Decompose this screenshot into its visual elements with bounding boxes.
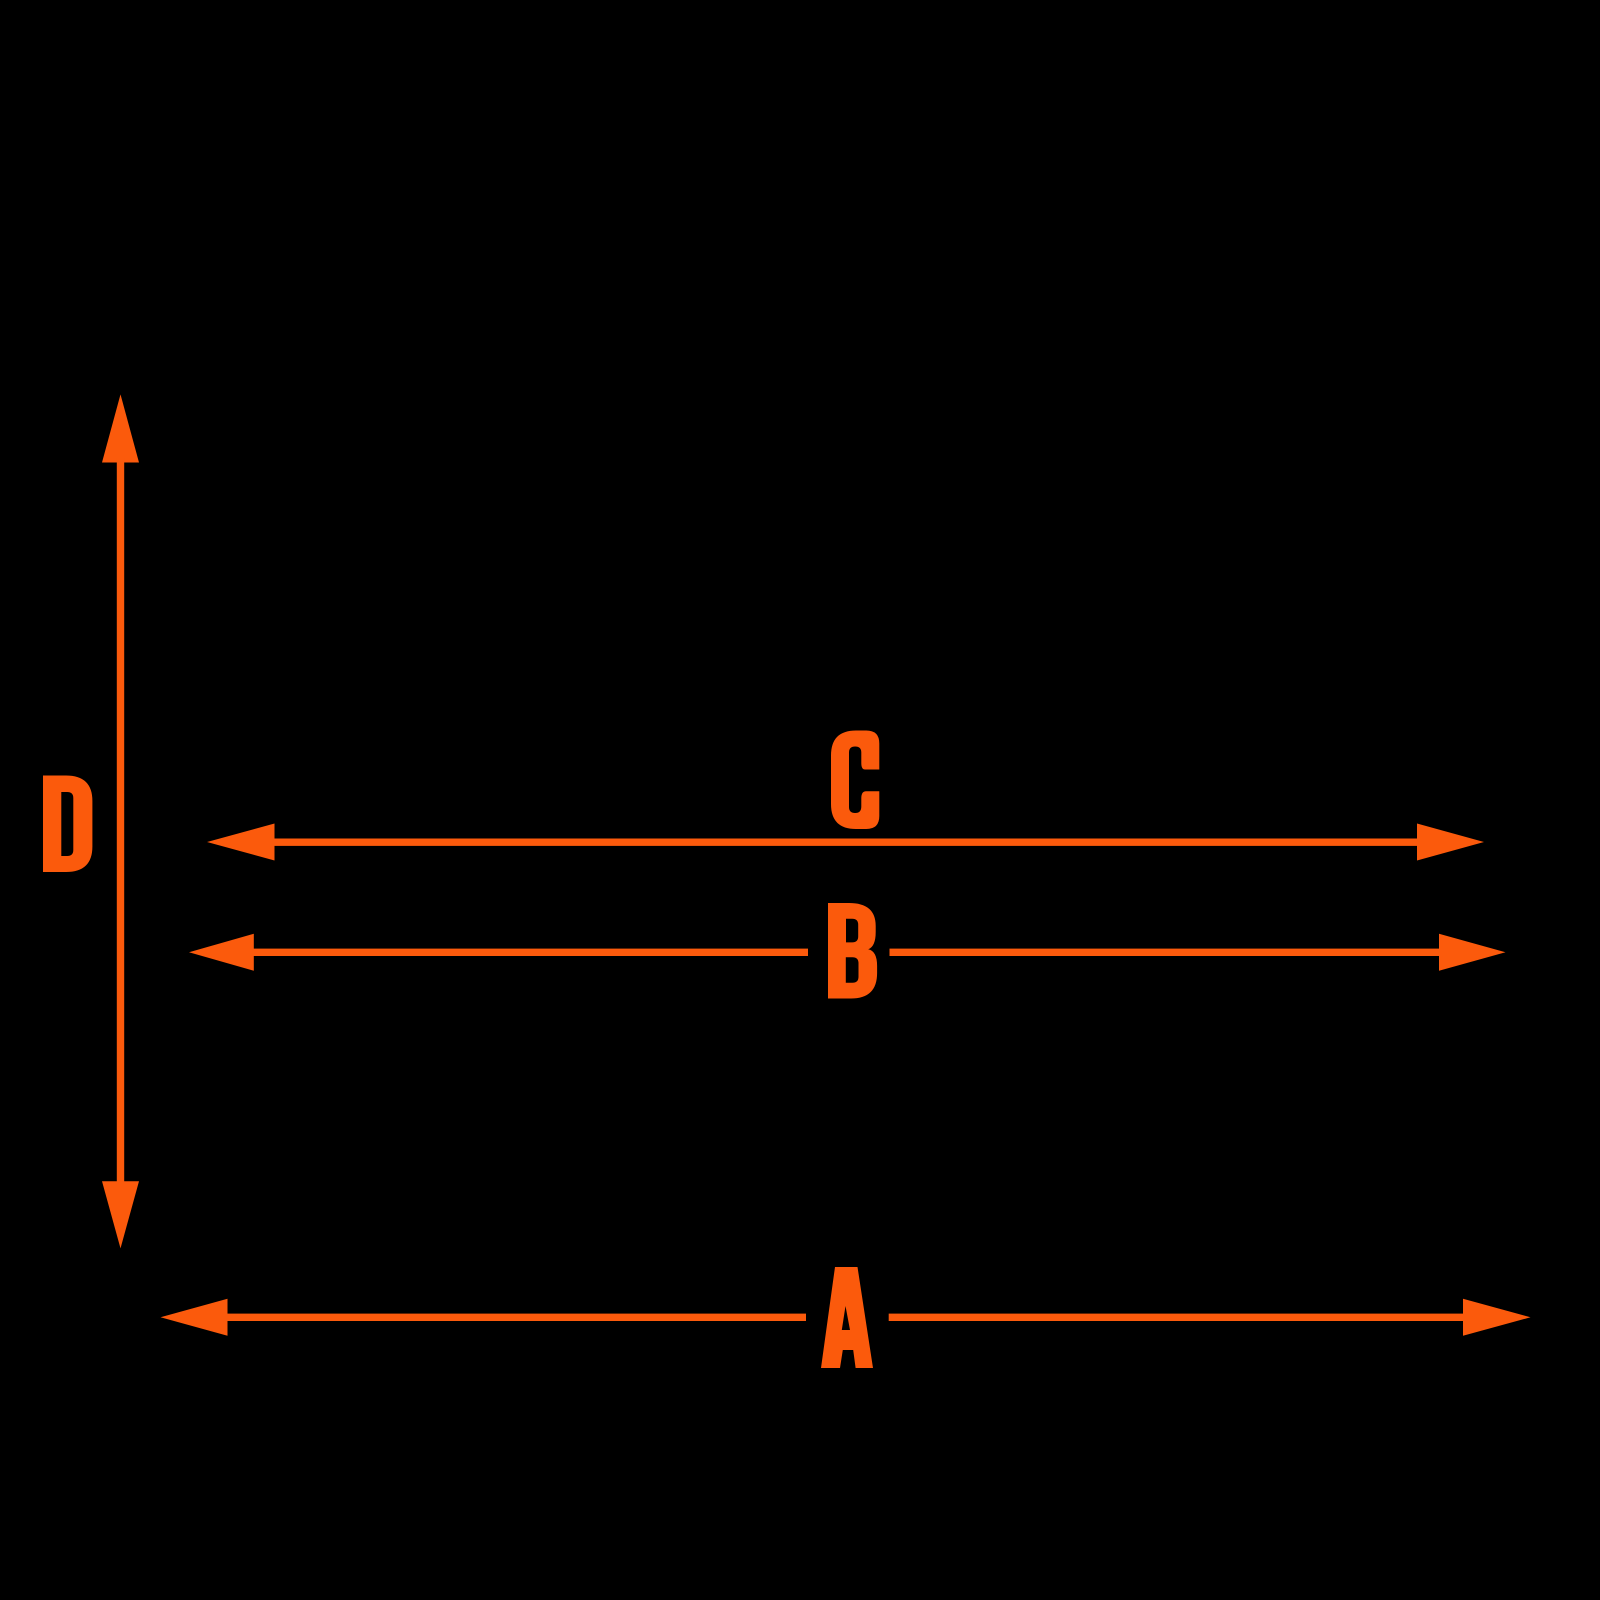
dimension arrow C (horizontal double-headed) [207,824,1484,861]
wire A right segment [889,1314,1467,1321]
arrowhead A right [1463,1299,1531,1336]
label C [831,731,879,830]
label B [828,903,877,999]
arrowhead D top [102,394,139,462]
wire B left segment [250,949,808,956]
dimension arrow B (horizontal double-headed, line broken by label) [189,934,1506,971]
arrowhead B left [189,934,254,971]
arrowhead C right [1417,824,1484,861]
arrowhead D bottom [102,1181,139,1248]
dimension arrow A (horizontal double-headed, line broken by label) [161,1299,1531,1336]
dimension arrow D (vertical double-headed) [102,394,139,1248]
wire A left segment [224,1314,806,1321]
label D [43,776,92,873]
label A [821,1267,873,1368]
arrowhead A left [161,1299,228,1336]
arrowhead C left [207,824,275,861]
wire B right segment [890,949,1444,956]
wire C shaft [271,839,1421,846]
wire D shaft [117,458,124,1185]
arrowhead B right [1439,934,1506,971]
